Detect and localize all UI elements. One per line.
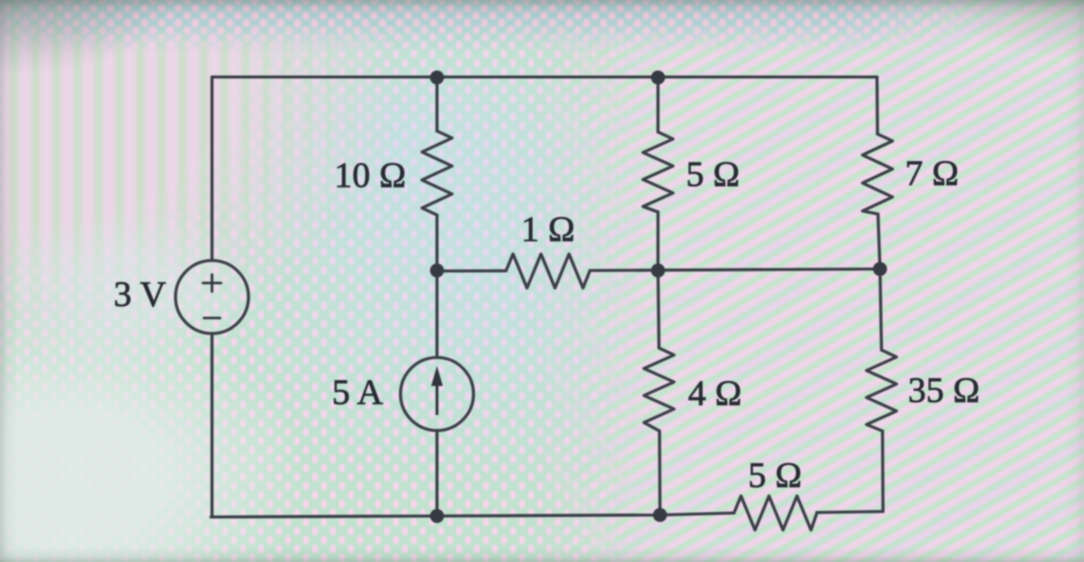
svg-text:7 Ω: 7 Ω [905,153,959,193]
svg-text:5 Ω: 5 Ω [748,455,802,495]
svg-text:5 Ω: 5 Ω [686,154,740,194]
svg-text:10 Ω: 10 Ω [334,155,406,195]
svg-text:5 A: 5 A [332,372,383,412]
svg-text:3 V: 3 V [114,274,166,314]
svg-text:1 Ω: 1 Ω [521,209,575,249]
svg-text:4 Ω: 4 Ω [688,373,742,413]
svg-text:35 Ω: 35 Ω [908,370,980,410]
